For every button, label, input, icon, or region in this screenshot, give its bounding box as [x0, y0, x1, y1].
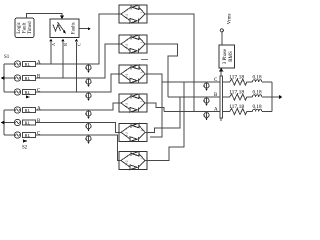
wire S1c to thyristor block 3	[36, 74, 119, 92]
wire logic box to fault box	[27, 13, 62, 18]
source S1a	[14, 61, 20, 67]
svg-text:0,18: 0,18	[253, 90, 262, 96]
source S1b	[14, 75, 20, 81]
svg-text:1-2: 1-2	[125, 132, 129, 136]
svg-text:A: A	[51, 43, 56, 46]
svg-text:RL: RL	[25, 120, 31, 125]
svg-text:RL: RL	[25, 133, 31, 138]
source S2c	[14, 132, 20, 138]
S1 common neutral wire	[3, 64, 5, 92]
load branch A: resistor 117,18	[223, 109, 253, 115]
svg-text:0,18: 0,18	[253, 75, 262, 81]
load common wire	[271, 82, 273, 112]
wire S1b to thyristor block 2	[36, 44, 119, 78]
svg-text:B: B	[63, 43, 68, 46]
wire S2c to thyristor block 6	[36, 135, 119, 161]
svg-text:117,18: 117,18	[229, 75, 244, 81]
load branch A: inductor 0,18	[253, 109, 262, 111]
S2 common neutral wire	[3, 110, 5, 135]
fault box U2	[50, 19, 79, 38]
load branch B: inductor 0,18	[253, 95, 262, 97]
voltage probe Vc (bus)	[203, 82, 209, 91]
voltage probe V2b	[85, 123, 91, 132]
S2 phase rotation arrow	[23, 139, 27, 142]
wire T5 output to bus row B	[147, 97, 180, 132]
svg-text:A: A	[37, 60, 41, 65]
svg-text:1-2: 1-2	[125, 44, 129, 48]
load branch C: resistor 117,18	[223, 79, 253, 85]
voltage probe V2a	[85, 110, 91, 119]
fault tap C	[76, 42, 78, 92]
Vrms terminal	[221, 32, 223, 45]
voltage probe Va (bus)	[203, 112, 209, 121]
svg-text:C: C	[77, 43, 82, 46]
voltage probe V1a	[85, 64, 91, 73]
svg-text:117,18: 117,18	[229, 104, 244, 110]
S2 neutral arrow	[0, 120, 4, 124]
impedance RL (S1a)	[22, 61, 35, 66]
impedance RL (S2c)	[22, 132, 35, 137]
svg-text:Logic: Logic	[17, 21, 22, 33]
svg-text:1-2: 1-2	[125, 14, 129, 18]
3 phase RMS box U3	[219, 45, 235, 68]
svg-text:1-2: 1-2	[125, 103, 129, 107]
fault tap B	[62, 42, 64, 78]
bus row A	[164, 111, 220, 113]
voltage probe V1b	[85, 78, 91, 87]
bus to RMS arrow	[220, 71, 222, 76]
wire T6 output to bus row C	[147, 82, 184, 161]
voltage probe V1c	[85, 92, 91, 101]
output arrow	[272, 96, 280, 98]
thyristor block T6	[119, 151, 147, 169]
thyristor block T1	[119, 5, 147, 23]
S1 neutral arrow	[0, 76, 4, 80]
timed fault logic box U1	[15, 18, 34, 38]
svg-text:A: A	[37, 106, 41, 111]
wire T1 output to bus row A	[147, 14, 194, 112]
svg-text:Timed: Timed	[28, 21, 33, 34]
thyristor block T3	[119, 65, 147, 83]
svg-text:Fault: Fault	[23, 22, 28, 33]
svg-text:1-2: 1-2	[125, 160, 129, 164]
impedance RL (S2b)	[22, 120, 35, 125]
impedance RL (S2a)	[22, 107, 35, 112]
svg-text:RL: RL	[25, 90, 31, 95]
thyristor block T2	[119, 35, 147, 53]
svg-text:Faults: Faults	[72, 22, 77, 34]
wire T2 output to bus row B	[147, 44, 178, 97]
label dash	[141, 59, 148, 61]
bus row C	[162, 81, 220, 83]
svg-text:117,18: 117,18	[229, 90, 244, 96]
impedance RL (S1c)	[22, 89, 35, 94]
voltage probe Vb (bus)	[203, 97, 209, 106]
thyristor block T4	[119, 94, 147, 112]
svg-text:S2: S2	[22, 146, 28, 151]
source S1c	[14, 89, 20, 95]
svg-text:0,18: 0,18	[253, 104, 262, 110]
svg-text:RL: RL	[25, 76, 31, 81]
load branch B: resistor 117,18	[223, 94, 253, 100]
svg-text:1-2: 1-2	[125, 73, 129, 77]
svg-text:RL: RL	[25, 108, 31, 113]
fault tap A	[50, 42, 52, 64]
wire S2a to thyristor block 4	[36, 103, 119, 110]
wire T3 output to bus row C	[147, 74, 162, 137]
wire T4 output to bus row A	[147, 103, 164, 112]
fault box output arrow	[79, 28, 88, 30]
svg-text:RL: RL	[25, 62, 31, 67]
voltage probe V2c	[85, 135, 91, 144]
svg-text:Vrms: Vrms	[227, 14, 232, 25]
svg-text:S1: S1	[4, 55, 10, 60]
svg-text:A: A	[214, 108, 218, 113]
load branch C: inductor 0,18	[253, 80, 262, 82]
wire S1a to thyristor block 1	[36, 14, 119, 64]
impedance RL (S1b)	[22, 75, 35, 80]
bus row B	[168, 96, 220, 98]
wire S2b to thyristor block 5	[36, 123, 119, 133]
source S2a	[14, 107, 20, 113]
thyristor block T5	[119, 123, 147, 141]
svg-text:RMS: RMS	[229, 51, 234, 62]
source S2b	[14, 119, 20, 125]
svg-text:3 Phase: 3 Phase	[223, 48, 228, 64]
bus bar	[220, 76, 223, 118]
S1 phase rotation arrow	[26, 95, 30, 98]
